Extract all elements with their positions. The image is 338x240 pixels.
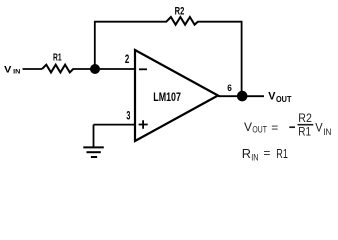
svg-text:2: 2 xyxy=(125,54,129,66)
svg-text:LM107: LM107 xyxy=(153,90,181,104)
svg-text:R1: R1 xyxy=(298,124,311,138)
svg-text:6: 6 xyxy=(227,83,232,93)
svg-text:R1: R1 xyxy=(276,146,288,161)
svg-text:R: R xyxy=(242,146,251,161)
svg-text:R2: R2 xyxy=(175,5,185,17)
svg-text:R2: R2 xyxy=(298,111,312,125)
svg-text:IN: IN xyxy=(13,69,21,76)
svg-text:IN: IN xyxy=(323,127,331,137)
svg-text:=: = xyxy=(263,146,270,160)
svg-text:IN: IN xyxy=(251,152,258,162)
svg-text:V: V xyxy=(4,65,12,76)
svg-text:V: V xyxy=(315,121,323,135)
svg-text:3: 3 xyxy=(126,111,130,123)
svg-text:OUT: OUT xyxy=(252,125,267,135)
svg-text:V: V xyxy=(244,120,252,134)
svg-text:=: = xyxy=(271,120,278,134)
svg-text:OUT: OUT xyxy=(276,94,292,104)
svg-text:R1: R1 xyxy=(53,53,62,64)
